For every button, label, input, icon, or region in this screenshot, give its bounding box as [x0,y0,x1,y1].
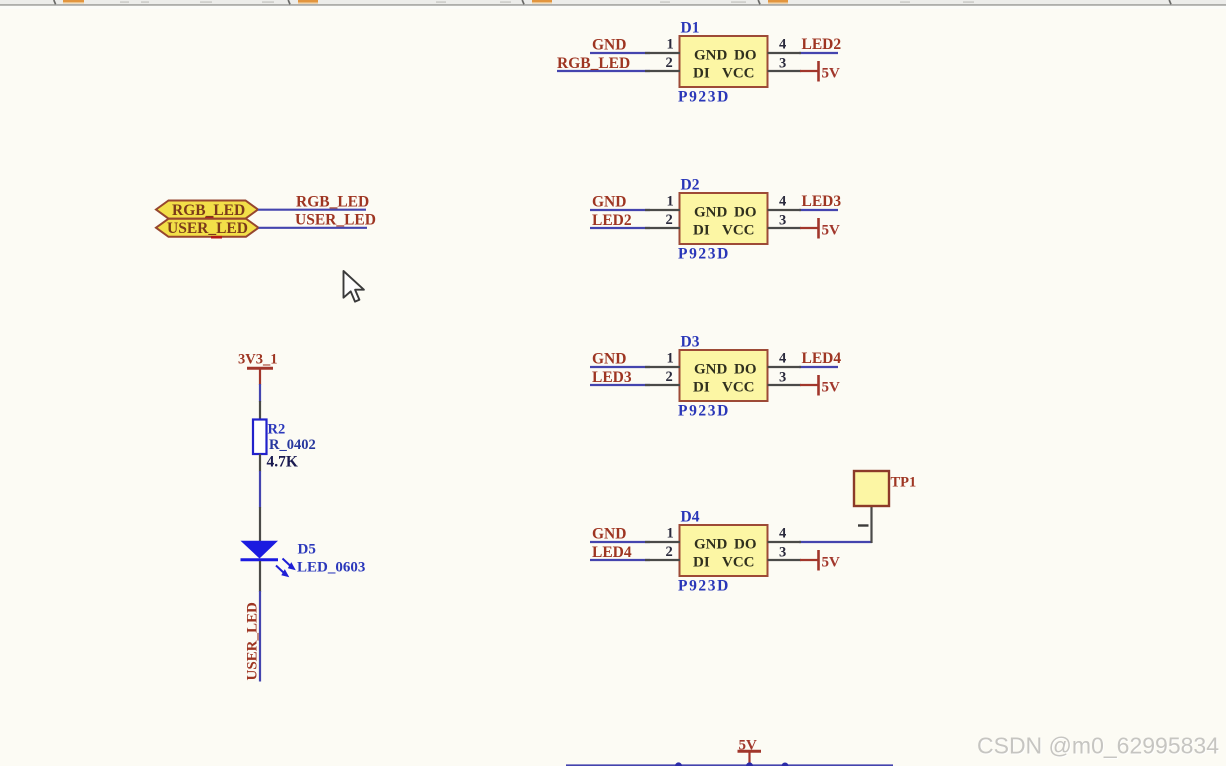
power port 5V at D4.3 [800,550,840,571]
test point TP1 [854,471,916,506]
wire net LED2 to D2.2 [590,227,650,229]
svg-text:VCC: VCC [722,555,755,571]
svg-text:TP1: TP1 [891,475,917,491]
svg-text:GND: GND [694,48,728,64]
wire net USER_LED down [259,591,261,682]
tab separator ticks [54,0,1171,4]
component D4 body [680,525,768,576]
svg-text:4.7K: 4.7K [267,454,298,471]
pin 1 of D3 [645,366,680,368]
svg-text:2: 2 [666,212,673,228]
power port 5V at D2.3 [800,218,840,239]
pin 3 of D3 [768,384,802,386]
svg-text:D4: D4 [681,509,700,526]
svg-text:LED2: LED2 [802,36,842,53]
pin 2 of D2 [645,227,680,229]
wire net GND to D1.1 [590,52,650,54]
wire net LED3 from D2.4 [799,209,838,211]
pin 2 of D1 [645,70,680,72]
svg-text:4: 4 [779,194,786,210]
wire net USER_LED from port [259,227,368,229]
pin 3 of D2 [768,227,802,229]
wire net LED4 to D4.2 [590,559,650,561]
component D2 body [680,193,768,244]
pin anode of D5 [259,507,261,542]
svg-text:3V3_1: 3V3_1 [238,352,277,368]
svg-text:RGB_LED: RGB_LED [296,194,369,211]
svg-text:LED4: LED4 [592,544,632,561]
LED D5 emission arrow 1 [283,559,296,571]
component D3 body [680,350,768,401]
svg-text:GND: GND [592,194,626,211]
tab title remnants (faint) [120,1,974,3]
svg-text:2: 2 [666,55,673,71]
pin 1 of D4 [645,541,680,543]
wire 3V3_1 to R2 [259,384,261,402]
svg-text:USER_LED: USER_LED [167,220,248,237]
svg-text:1: 1 [667,351,674,367]
wire net GND to D4.1 [590,541,650,543]
wire net GND to D2.1 [590,209,650,211]
wire net LED4 from D3.4 [799,366,838,368]
svg-text:P923D: P923D [678,246,730,263]
svg-text:DI: DI [693,555,710,571]
port RGB_LED [156,201,258,220]
junction node [782,763,789,766]
svg-text:GND: GND [694,205,728,221]
svg-text:5V: 5V [822,555,841,571]
svg-text:4: 4 [779,351,786,367]
LED D5 cathode bar [241,558,279,561]
junction node [675,762,682,766]
junction node [746,762,753,766]
svg-text:GND: GND [592,351,626,368]
component D1 body [680,36,768,87]
svg-text:DO: DO [734,537,757,553]
svg-text:P923D: P923D [678,578,730,595]
pin 2 of R2 [259,454,261,472]
wire net GND to D3.1 [590,366,650,368]
port USER_LED [156,219,259,238]
svg-text:2: 2 [666,544,673,560]
svg-text:GND: GND [592,37,626,54]
pin cathode of D5 [259,561,261,592]
pin 1 of D2 [645,209,680,211]
svg-text:3: 3 [779,545,786,561]
pin 2 of D3 [645,384,680,386]
pin of TP1 (vertical) [870,505,872,543]
svg-text:DO: DO [734,205,757,221]
pin 1 of D1 [645,52,680,54]
pin 2 of D4 [645,559,680,561]
svg-text:1: 1 [667,526,674,542]
svg-text:5V: 5V [822,380,841,396]
svg-text:RGB_LED: RGB_LED [557,55,630,72]
svg-text:4: 4 [779,526,786,542]
svg-text:LED3: LED3 [802,193,842,210]
pin 4 of D3 [768,366,802,368]
svg-text:5V: 5V [822,223,841,239]
svg-text:3: 3 [779,213,786,229]
svg-text:D1: D1 [681,20,700,37]
svg-text:CSDN @m0_62995834: CSDN @m0_62995834 [977,733,1219,759]
svg-text:DI: DI [693,223,710,239]
wire net RGB_LED to D1.2 [557,70,650,72]
svg-text:LED_0603: LED_0603 [297,560,365,576]
pin 3 of D1 [768,70,802,72]
svg-text:DI: DI [693,380,710,396]
svg-text:VCC: VCC [722,380,755,396]
port RGB_LED underscore mark [205,217,214,220]
svg-text:D2: D2 [681,177,700,194]
tab bar strip [0,0,1226,9]
tab favicon tops (orange) [63,0,788,4]
svg-text:3: 3 [779,370,786,386]
pin 1 of R2 [259,401,261,420]
wire net LED2 from D1.4 [799,52,838,54]
svg-text:LED2: LED2 [592,212,632,229]
svg-text:3: 3 [779,56,786,72]
power port 5V bottom [738,738,762,765]
svg-text:GND: GND [592,526,626,543]
svg-text:DO: DO [734,48,757,64]
wire R2 to D5 [259,471,261,508]
svg-text:2: 2 [666,369,673,385]
LED D5 emission arrow 2 [276,566,289,578]
pin 4 of D1 [768,52,802,54]
svg-text:LED3: LED3 [592,369,632,386]
LED D5 triangle [241,541,279,559]
svg-text:USER_LED: USER_LED [295,212,376,229]
port USER_LED underscore mark [211,236,222,239]
svg-text:DI: DI [693,66,710,82]
pin 4 of D2 [768,209,802,211]
resistor R2 body [253,420,267,455]
power port 5V at D3.3 [800,375,840,396]
svg-text:R_0402: R_0402 [269,437,316,453]
svg-text:RGB_LED: RGB_LED [172,202,245,219]
svg-text:GND: GND [694,537,728,553]
svg-text:1: 1 [667,37,674,53]
svg-text:VCC: VCC [722,66,755,82]
wire net LED3 to D3.2 [590,384,650,386]
svg-text:USER_LED: USER_LED [245,602,261,681]
mouse cursor [344,271,364,302]
svg-text:P923D: P923D [678,403,730,420]
svg-text:1: 1 [667,194,674,210]
svg-text:5V: 5V [822,66,841,82]
svg-text:VCC: VCC [722,223,755,239]
svg-text:LED4: LED4 [802,350,842,367]
power port 5V at D1.3 [800,61,840,82]
power port 3V3_1 [238,352,277,386]
svg-text:DO: DO [734,362,757,378]
wire 5V rail bottom [566,764,893,766]
svg-text:R2: R2 [268,422,286,438]
pin 4 of D4 [768,541,802,543]
pin 1 of TP1 (dash) [858,524,869,526]
svg-text:4: 4 [779,37,786,53]
wire D4.4 to TP1 [799,541,872,543]
wire net RGB_LED from port [258,209,366,211]
svg-text:D5: D5 [298,542,316,558]
svg-text:D3: D3 [681,334,700,351]
svg-text:GND: GND [694,362,728,378]
pin 3 of D4 [768,559,802,561]
svg-text:P923D: P923D [678,89,730,106]
